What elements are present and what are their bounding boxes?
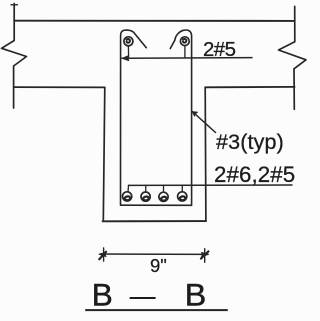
bottom bar 1: [123, 192, 132, 201]
stirrup: [121, 30, 192, 205]
dimension extension tick right: [204, 249, 206, 263]
svg-text:2#5: 2#5: [203, 38, 236, 61]
dimension slash right: [201, 251, 208, 258]
svg-text:—: —: [130, 279, 156, 312]
bottom bar 2 scribble: [143, 197, 149, 201]
stem left wall: [103, 87, 105, 221]
dimension arrow left: [99, 252, 106, 256]
stub to bottom bar 3: [163, 185, 165, 191]
stub to bottom bar 1: [127, 185, 130, 192]
stem right wall: [204, 87, 207, 221]
bottom bar 4 scribble: [179, 196, 185, 200]
left break top tick: [11, 4, 17, 6]
slab bottom left line: [14, 86, 105, 88]
stub to bottom bar 2: [145, 185, 147, 191]
stem bottom line: [103, 220, 206, 222]
arrowhead of #3(typ) leader: [192, 112, 197, 117]
top bar left stub: [127, 46, 129, 58]
dimension arrow right: [202, 253, 209, 257]
dimension extension tick left: [103, 248, 105, 261]
bottom bar 2: [141, 192, 150, 201]
svg-text:B: B: [92, 276, 113, 312]
bottom bar 4: [178, 192, 187, 201]
dimension line 9": [101, 253, 207, 255]
top bar left (2#5 hook bar): [124, 37, 133, 46]
svg-text:#3(typ): #3(typ): [216, 130, 284, 154]
top bar right (2#5 hook bar): [180, 37, 189, 46]
bottom bar 1 scribble: [124, 196, 130, 200]
svg-text:2#6,2#5: 2#6,2#5: [214, 162, 295, 187]
slab top line: [14, 20, 294, 22]
left break line: [2, 4, 27, 109]
stub to bottom bar 4: [181, 185, 183, 191]
leader line for #3(typ): [192, 112, 215, 133]
leader line for 2#6,2#5: [129, 184, 293, 186]
top bar right stub: [184, 46, 186, 58]
top bar right scribble: [183, 39, 186, 43]
svg-text:9": 9": [150, 255, 167, 276]
bottom bar 3: [159, 192, 168, 201]
bottom bar 3 scribble: [161, 197, 167, 201]
top bar left scribble: [127, 39, 130, 43]
leader line for 2#5: [122, 57, 252, 60]
arrowhead of 2#5 leader: [122, 56, 129, 61]
slab bottom right line: [205, 86, 294, 88]
svg-text:B: B: [185, 276, 207, 312]
dimension slash left: [99, 252, 106, 259]
title underline: [85, 309, 228, 311]
right break line: [279, 6, 307, 109]
